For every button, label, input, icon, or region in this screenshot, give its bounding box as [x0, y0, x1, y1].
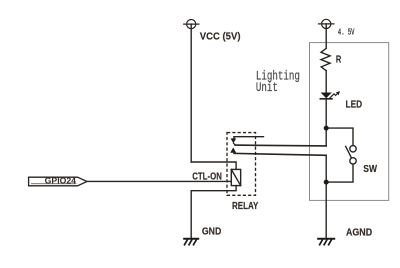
- svg-text:Unit: Unit: [256, 81, 278, 95]
- svg-text:LED: LED: [346, 100, 363, 111]
- svg-text:AGND: AGND: [346, 228, 372, 239]
- svg-text:RELAY: RELAY: [232, 201, 259, 212]
- svg-text:GND: GND: [202, 226, 221, 237]
- svg-text:GPIO24: GPIO24: [45, 175, 77, 185]
- svg-text:SW: SW: [363, 164, 377, 175]
- svg-text:R: R: [336, 55, 342, 66]
- svg-text:VCC (5V): VCC (5V): [200, 32, 241, 43]
- svg-text:CTL-ON: CTL-ON: [192, 172, 222, 183]
- svg-text:4. 5V: 4. 5V: [338, 27, 355, 37]
